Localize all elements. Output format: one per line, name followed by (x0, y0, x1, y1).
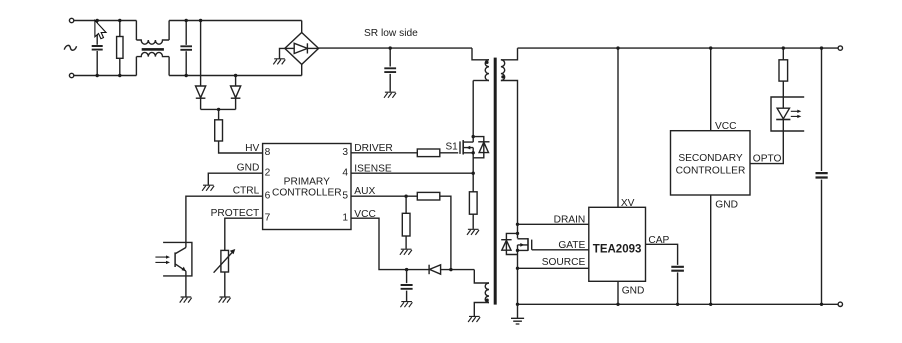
ground aux winding (468, 316, 480, 322)
ground opto (180, 297, 192, 303)
wire GND sec to rail (710, 195, 712, 304)
node HV join (201, 108, 236, 110)
ground bridge (273, 59, 285, 65)
capacitor C tea (671, 267, 684, 271)
wire gate resistor to S1 (440, 152, 458, 154)
optocoupler U2 LED side (771, 97, 804, 131)
svg-text:GND: GND (715, 200, 738, 211)
wire HV to pin 8 (219, 141, 263, 153)
op-amp U1 primary controller box (263, 144, 351, 230)
wire secondary bottom rail (518, 303, 839, 305)
ground pin2 (202, 185, 214, 191)
resistor R aux lower (405, 196, 407, 213)
wire secondary top rail (518, 47, 839, 49)
AC source symbol (64, 45, 76, 50)
svg-text:4: 4 (342, 167, 348, 178)
diode D2 from neutral (235, 76, 237, 87)
bridge ground wire (280, 48, 285, 58)
wire AUX pin 5 (351, 195, 417, 197)
resistor R sense (469, 192, 477, 214)
svg-text:3: 3 (342, 147, 348, 158)
svg-text:VCC: VCC (715, 121, 737, 132)
wire GND pin 2 (208, 173, 262, 185)
wire SR low side bus (319, 47, 472, 49)
svg-text:DRAIN: DRAIN (554, 214, 586, 225)
svg-text:TEA2093: TEA2093 (593, 244, 642, 256)
capacitor C out (821, 48, 823, 304)
resistor R aux upper (417, 192, 440, 200)
wire GND TEA to bottom rail (617, 281, 619, 304)
svg-text:PROTECT: PROTECT (211, 208, 260, 219)
wire top rail mid (169, 20, 302, 22)
op-amp U3 TEA2093 box (589, 207, 646, 281)
wire PROTECT pin 7 (225, 218, 263, 250)
body diode Q1 (473, 137, 484, 158)
ground secondary earth (517, 304, 519, 318)
wire OPTO pin (750, 131, 783, 163)
svg-text:5: 5 (342, 190, 348, 201)
wire XV to top rail (617, 48, 619, 207)
diode D1 from line (200, 21, 202, 87)
AC input terminal bottom (69, 73, 73, 77)
wire CAP pin (646, 244, 678, 265)
transistor Q2 SR MOSFET (516, 223, 519, 226)
capacitor CX2 (185, 21, 187, 76)
wire DRIVER pin 3 (351, 152, 417, 154)
svg-text:8: 8 (265, 147, 271, 158)
wire bottom rail mid (169, 75, 302, 77)
svg-text:PRIMARY: PRIMARY (284, 176, 330, 187)
optocoupler U2 phototransistor (163, 242, 192, 276)
output terminal bottom (838, 302, 842, 306)
resistor R opto (782, 48, 784, 60)
resistor R HV startup (218, 109, 220, 119)
bridge rectifier wire top (301, 21, 303, 33)
wire aux to vcc diode node (440, 196, 451, 269)
svg-text:7: 7 (265, 212, 271, 223)
wire CTRL pin 6 (186, 196, 263, 247)
common mode choke L1 (136, 21, 169, 76)
capacitor C vcc (406, 270, 408, 302)
diode D vcc (428, 265, 430, 275)
svg-text:1: 1 (342, 212, 348, 223)
wire varistor to ground (224, 272, 226, 297)
capacitor CX1 (96, 21, 98, 76)
svg-text:6: 6 (265, 190, 271, 201)
varistor RV1 (221, 250, 229, 272)
bridge output wire down (301, 64, 303, 75)
svg-text:XV: XV (621, 198, 635, 209)
svg-text:CONTROLLER: CONTROLLER (676, 166, 746, 177)
wire VCC sec to rail (710, 48, 712, 131)
transformer T1 secondary winding (501, 60, 505, 81)
svg-text:SECONDARY: SECONDARY (678, 153, 743, 164)
wire ISENSE pin 4 (351, 172, 473, 174)
ground aux divider (400, 249, 412, 255)
svg-text:CTRL: CTRL (233, 186, 260, 197)
resistor RV input (117, 37, 123, 59)
wire bottom rail left (74, 75, 137, 77)
wire drain to TEA2093 (518, 223, 589, 225)
node junction dots C1 (96, 19, 99, 22)
svg-text:2: 2 (265, 167, 271, 178)
output terminal top (838, 46, 842, 50)
wire top rail left (74, 20, 137, 22)
ground vcc cap (400, 302, 412, 308)
svg-text:OPTO: OPTO (753, 154, 782, 165)
wire gate Q2 to TEA2093 (532, 249, 589, 251)
svg-text:SR low side: SR low side (364, 28, 418, 39)
transformer T1 primary winding (472, 48, 489, 60)
mouse cursor (95, 20, 106, 38)
wire VCC pin 1 (351, 218, 429, 269)
ground varistor (219, 297, 231, 303)
body diode Q2 (506, 233, 517, 254)
op-amp U4 secondary controller box (671, 131, 751, 195)
svg-text:S1: S1 (446, 142, 459, 153)
wire opto emitter to ground (185, 271, 187, 297)
wire source to TEA2093 (518, 267, 589, 269)
svg-text:SOURCE: SOURCE (542, 257, 586, 268)
transformer T1 aux winding (474, 270, 489, 283)
ground bus cap (384, 92, 396, 98)
svg-text:GATE: GATE (558, 240, 585, 251)
ground sense resistor (467, 229, 479, 235)
choke core (142, 48, 164, 51)
transformer core (494, 58, 497, 305)
svg-text:GND: GND (237, 162, 260, 173)
capacitor bus C3 (389, 48, 391, 92)
svg-text:HV: HV (245, 143, 259, 154)
resistor R gate (417, 149, 440, 157)
bridge rectifier B1 (285, 33, 319, 65)
svg-text:CONTROLLER: CONTROLLER (272, 188, 342, 199)
AC input terminal top (69, 18, 73, 22)
svg-text:GND: GND (622, 286, 645, 297)
transistor Q1 primary MOSFET (459, 141, 461, 154)
